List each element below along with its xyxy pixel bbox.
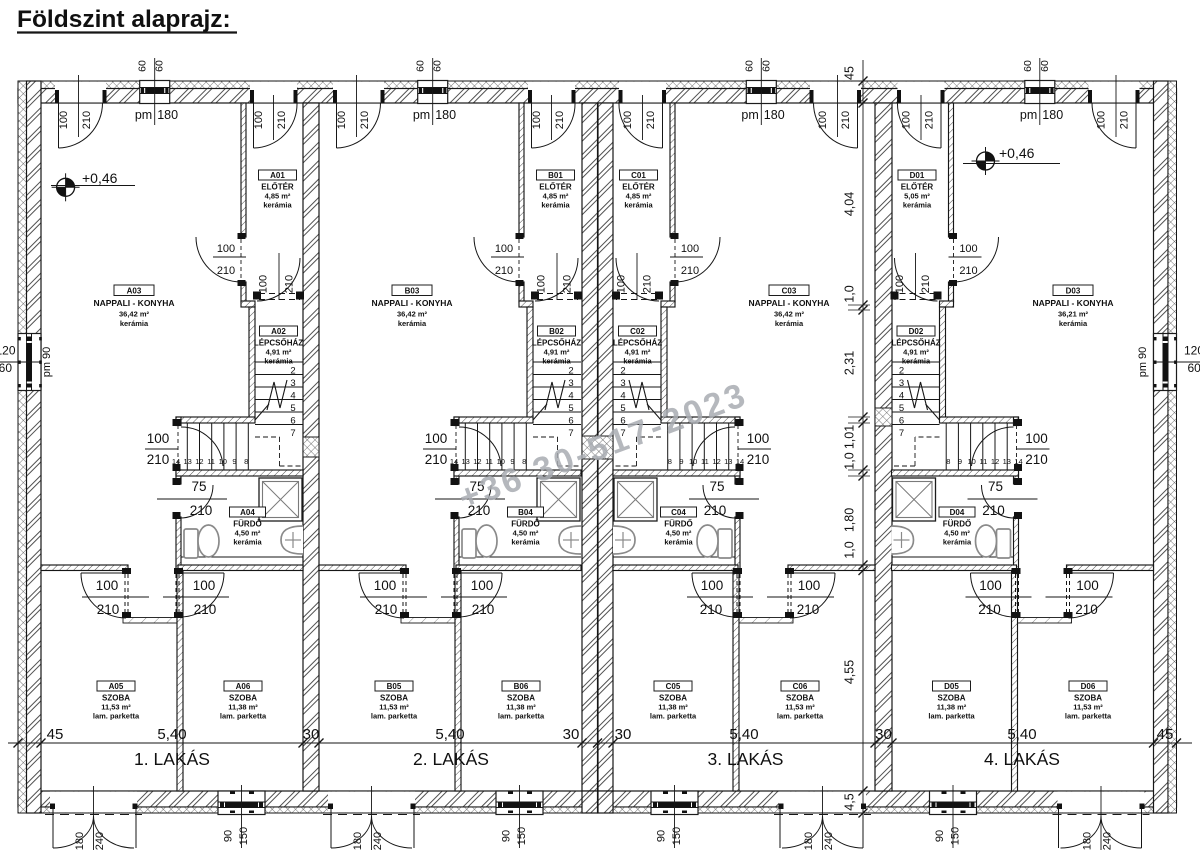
svg-text:30: 30 xyxy=(615,726,632,743)
svg-text:11,53 m²: 11,53 m² xyxy=(101,703,131,712)
svg-text:100: 100 xyxy=(336,111,348,129)
svg-text:180: 180 xyxy=(1082,832,1094,850)
svg-text:60: 60 xyxy=(137,60,149,72)
svg-text:5,40: 5,40 xyxy=(157,726,186,743)
unit B top-wall nappali door xyxy=(333,82,384,103)
svg-text:1,0: 1,0 xyxy=(843,285,857,302)
svg-text:A04: A04 xyxy=(240,508,255,517)
svg-text:C02: C02 xyxy=(630,327,645,336)
unit D stairs upper flight xyxy=(892,361,940,363)
svg-text:100: 100 xyxy=(193,578,216,593)
svg-text:60: 60 xyxy=(1022,60,1034,72)
svg-text:11: 11 xyxy=(701,457,709,466)
svg-text:D01: D01 xyxy=(910,171,925,180)
svg-text:1,01: 1,01 xyxy=(843,425,857,449)
svg-text:36,21 m²: 36,21 m² xyxy=(1058,310,1089,319)
svg-text:2: 2 xyxy=(568,366,573,377)
svg-text:D04: D04 xyxy=(950,508,965,517)
svg-text:pm: pm xyxy=(741,108,758,122)
svg-text:12: 12 xyxy=(473,457,481,466)
svg-text:kerámia: kerámia xyxy=(263,201,292,210)
svg-text:A05: A05 xyxy=(109,682,124,691)
unit D szoba doors xyxy=(1064,568,1073,574)
unit C bathroom fixtures xyxy=(613,556,735,558)
svg-text:2: 2 xyxy=(899,366,904,377)
svg-text:210: 210 xyxy=(1075,602,1098,617)
svg-text:100: 100 xyxy=(58,111,70,129)
svg-text:A03: A03 xyxy=(127,287,142,296)
unit A bottom entrance door xyxy=(50,792,137,813)
svg-text:ELŐTÉR: ELŐTÉR xyxy=(622,183,655,192)
unit A interior walls xyxy=(241,103,246,237)
unit C top-wall nappali door xyxy=(810,82,861,103)
svg-text:7: 7 xyxy=(290,428,295,439)
svg-text:12: 12 xyxy=(712,457,720,466)
unit A eloter-nappali door xyxy=(238,233,246,239)
svg-text:1,80: 1,80 xyxy=(843,508,857,532)
svg-text:LÉPCSŐHÁZ: LÉPCSŐHÁZ xyxy=(891,339,940,348)
svg-text:FÜRDŐ: FÜRDŐ xyxy=(233,520,261,529)
unit B top-wall entry door xyxy=(528,82,575,103)
svg-text:kerámia: kerámia xyxy=(233,538,262,547)
svg-text:4: 4 xyxy=(290,390,295,401)
svg-text:1. LAKÁS: 1. LAKÁS xyxy=(134,749,210,769)
svg-text:D02: D02 xyxy=(909,327,924,336)
svg-text:210: 210 xyxy=(1025,452,1048,467)
svg-text:100: 100 xyxy=(747,431,770,446)
svg-text:240: 240 xyxy=(372,832,384,850)
unit D stairs lower flight xyxy=(1006,423,1008,470)
svg-text:LÉPCSŐHÁZ: LÉPCSŐHÁZ xyxy=(254,339,303,348)
unit C szoba doors xyxy=(785,568,794,574)
svg-text:lam. parketta: lam. parketta xyxy=(371,712,418,721)
svg-text:36,42 m²: 36,42 m² xyxy=(774,310,805,319)
unit B bottom window 90/150 xyxy=(496,792,543,813)
room label B06 xyxy=(502,681,540,691)
unit C top-wall entry door xyxy=(619,82,666,103)
svg-text:A06: A06 xyxy=(236,682,251,691)
dimension chain vertical x863 xyxy=(862,60,864,845)
svg-text:75: 75 xyxy=(709,479,724,494)
svg-text:1,0: 1,0 xyxy=(843,541,857,558)
svg-text:6: 6 xyxy=(899,415,904,426)
svg-text:210: 210 xyxy=(472,602,495,617)
svg-text:9: 9 xyxy=(958,457,962,466)
svg-text:2: 2 xyxy=(290,366,295,377)
svg-text:4,5: 4,5 xyxy=(843,793,857,810)
svg-text:100: 100 xyxy=(147,431,170,446)
svg-text:kerámia: kerámia xyxy=(624,201,653,210)
svg-text:120: 120 xyxy=(1184,344,1200,358)
svg-text:210: 210 xyxy=(797,602,820,617)
svg-text:150: 150 xyxy=(516,827,528,845)
svg-text:210: 210 xyxy=(81,111,93,129)
unit D bathroom fixtures xyxy=(892,556,1014,558)
room label B01 xyxy=(537,170,575,180)
svg-text:B05: B05 xyxy=(387,682,402,691)
room label C02 xyxy=(619,326,657,336)
svg-text:90: 90 xyxy=(934,830,946,842)
room label C04 xyxy=(661,507,697,517)
room label A03 xyxy=(114,285,154,296)
svg-text:ELŐTÉR: ELŐTÉR xyxy=(261,183,294,192)
unit B bottom entrance door xyxy=(328,792,415,813)
svg-text:D03: D03 xyxy=(1066,287,1081,296)
svg-text:8: 8 xyxy=(244,457,248,466)
svg-text:45: 45 xyxy=(843,66,857,80)
svg-text:210: 210 xyxy=(562,275,574,293)
svg-text:100: 100 xyxy=(253,111,265,129)
svg-text:4,04: 4,04 xyxy=(843,192,857,216)
svg-text:4: 4 xyxy=(620,390,625,401)
svg-text:180: 180 xyxy=(352,832,364,850)
svg-text:3: 3 xyxy=(568,378,573,389)
svg-text:210: 210 xyxy=(645,111,657,129)
svg-text:60: 60 xyxy=(1039,60,1051,72)
window pm90 left wall unit A xyxy=(18,334,41,391)
svg-text:210: 210 xyxy=(924,111,936,129)
svg-text:5: 5 xyxy=(899,403,904,414)
svg-text:210: 210 xyxy=(840,111,852,129)
svg-text:13: 13 xyxy=(1003,457,1011,466)
svg-text:lam. parketta: lam. parketta xyxy=(93,712,140,721)
svg-text:4,91 m²: 4,91 m² xyxy=(544,348,570,357)
svg-text:3: 3 xyxy=(620,378,625,389)
svg-text:100: 100 xyxy=(531,111,543,129)
svg-text:pm 90: pm 90 xyxy=(41,347,53,378)
svg-text:NAPPALI - KONYHA: NAPPALI - KONYHA xyxy=(371,298,452,308)
svg-text:180: 180 xyxy=(803,832,815,850)
svg-text:FÜRDŐ: FÜRDŐ xyxy=(511,520,539,529)
svg-text:60: 60 xyxy=(154,60,166,72)
svg-text:+0,46: +0,46 xyxy=(82,170,118,186)
svg-text:100: 100 xyxy=(901,111,913,129)
svg-text:100: 100 xyxy=(1025,431,1048,446)
svg-text:100: 100 xyxy=(798,578,821,593)
svg-text:SZOBA: SZOBA xyxy=(938,694,966,703)
svg-text:5,40: 5,40 xyxy=(435,726,464,743)
svg-text:SZOBA: SZOBA xyxy=(786,694,814,703)
svg-text:180: 180 xyxy=(157,108,178,122)
room label C01 xyxy=(620,170,658,180)
unit A stairs upper flight xyxy=(255,361,303,363)
svg-text:100: 100 xyxy=(425,431,448,446)
svg-text:lam. parketta: lam. parketta xyxy=(1065,712,1112,721)
svg-text:210: 210 xyxy=(495,265,513,277)
svg-text:D05: D05 xyxy=(944,682,959,691)
svg-text:90: 90 xyxy=(656,830,668,842)
unit B bath door 75/210 xyxy=(451,478,459,485)
svg-text:lam. parketta: lam. parketta xyxy=(777,712,824,721)
unit A bottom window 90/150 xyxy=(218,792,265,813)
room label D06 xyxy=(1069,681,1107,691)
svg-text:pm: pm xyxy=(135,108,152,122)
svg-text:SZOBA: SZOBA xyxy=(229,694,257,703)
svg-text:210: 210 xyxy=(982,503,1005,518)
svg-text:210: 210 xyxy=(747,452,770,467)
svg-text:180: 180 xyxy=(435,108,456,122)
room label A01 xyxy=(259,170,297,180)
room label C03 xyxy=(769,285,809,296)
unit C stairs upper flight xyxy=(613,361,661,363)
room label D03 xyxy=(1053,285,1093,296)
svg-text:100: 100 xyxy=(622,111,634,129)
room label B04 xyxy=(508,507,544,517)
svg-text:210: 210 xyxy=(147,452,170,467)
svg-text:3. LAKÁS: 3. LAKÁS xyxy=(708,749,784,769)
svg-text:30: 30 xyxy=(303,726,320,743)
svg-text:12: 12 xyxy=(195,457,203,466)
svg-text:210: 210 xyxy=(700,602,723,617)
svg-text:2: 2 xyxy=(620,366,625,377)
svg-text:3: 3 xyxy=(899,378,904,389)
svg-text:5: 5 xyxy=(568,403,573,414)
svg-text:180: 180 xyxy=(764,108,785,122)
unit A top-wall entry door xyxy=(250,82,297,103)
svg-text:B04: B04 xyxy=(518,508,533,517)
party wall C-D xyxy=(875,103,892,791)
svg-text:4. LAKÁS: 4. LAKÁS xyxy=(984,749,1060,769)
svg-text:210: 210 xyxy=(190,503,213,518)
svg-text:36,42 m²: 36,42 m² xyxy=(397,310,428,319)
svg-text:60: 60 xyxy=(760,60,772,72)
svg-text:11,53 m²: 11,53 m² xyxy=(1073,703,1103,712)
svg-text:kerámia: kerámia xyxy=(541,201,570,210)
svg-text:SZOBA: SZOBA xyxy=(380,694,408,703)
svg-text:12: 12 xyxy=(991,457,999,466)
unit D interior walls xyxy=(949,103,954,237)
svg-text:11,38 m²: 11,38 m² xyxy=(228,703,258,712)
svg-text:210: 210 xyxy=(97,602,120,617)
svg-text:8: 8 xyxy=(946,457,950,466)
svg-text:100: 100 xyxy=(616,275,628,293)
unit A szoba doors xyxy=(122,568,131,574)
svg-text:C03: C03 xyxy=(782,287,797,296)
svg-text:60: 60 xyxy=(743,60,755,72)
svg-text:75: 75 xyxy=(191,479,206,494)
svg-text:4,91 m²: 4,91 m² xyxy=(625,348,651,357)
unit C eloter-nappali door xyxy=(671,233,679,239)
unit A stairs lower flight xyxy=(186,423,188,470)
svg-text:kerámia: kerámia xyxy=(775,319,804,328)
svg-text:B02: B02 xyxy=(549,327,564,336)
unit B stairs lower flight xyxy=(464,423,466,470)
exterior wall bottom xyxy=(18,791,1177,807)
svg-text:5,40: 5,40 xyxy=(1007,726,1036,743)
svg-text:240: 240 xyxy=(823,832,835,850)
svg-text:9: 9 xyxy=(232,457,236,466)
svg-text:A02: A02 xyxy=(271,327,286,336)
svg-text:100: 100 xyxy=(217,243,235,255)
svg-text:B06: B06 xyxy=(514,682,529,691)
svg-text:240: 240 xyxy=(1102,832,1114,850)
svg-text:kerámia: kerámia xyxy=(623,357,652,366)
svg-text:11,53 m²: 11,53 m² xyxy=(379,703,409,712)
svg-text:kerámia: kerámia xyxy=(120,319,149,328)
room label B03 xyxy=(392,285,432,296)
svg-text:100: 100 xyxy=(258,275,270,293)
unit C interior walls xyxy=(670,103,675,237)
unit B szoba doors xyxy=(400,568,409,574)
svg-text:pm: pm xyxy=(1020,108,1037,122)
svg-text:210: 210 xyxy=(978,602,1001,617)
svg-text:5,40: 5,40 xyxy=(729,726,758,743)
svg-text:ELŐTÉR: ELŐTÉR xyxy=(901,183,934,192)
svg-text:240: 240 xyxy=(94,832,106,850)
svg-text:60: 60 xyxy=(432,60,444,72)
svg-text:100: 100 xyxy=(374,578,397,593)
svg-text:4,85 m²: 4,85 m² xyxy=(543,192,569,201)
svg-text:100: 100 xyxy=(471,578,494,593)
svg-text:100: 100 xyxy=(817,111,829,129)
svg-text:11: 11 xyxy=(485,457,493,466)
room label B05 xyxy=(375,681,413,691)
party wall A-B xyxy=(303,103,319,791)
svg-text:210: 210 xyxy=(1119,111,1131,129)
svg-text:SZOBA: SZOBA xyxy=(1074,694,1102,703)
window pm90 right wall unit D xyxy=(1154,334,1177,391)
unit C stairs lower flight xyxy=(728,423,730,470)
svg-text:FÜRDŐ: FÜRDŐ xyxy=(943,520,971,529)
svg-text:60: 60 xyxy=(0,361,12,375)
svg-text:13: 13 xyxy=(184,457,192,466)
svg-text:150: 150 xyxy=(671,827,683,845)
exterior wall right xyxy=(1154,81,1169,813)
svg-text:13: 13 xyxy=(724,457,732,466)
svg-text:pm 90: pm 90 xyxy=(1137,347,1149,378)
svg-text:30: 30 xyxy=(563,726,580,743)
svg-text:kerámia: kerámia xyxy=(264,357,293,366)
unit D top-wall nappali door xyxy=(1089,82,1140,103)
svg-text:1,0: 1,0 xyxy=(843,452,857,469)
svg-text:45: 45 xyxy=(1157,726,1174,743)
unit D bottom entrance door xyxy=(1058,792,1145,813)
svg-text:100: 100 xyxy=(979,578,1002,593)
svg-text:5,05 m²: 5,05 m² xyxy=(904,192,930,201)
svg-text:100: 100 xyxy=(495,243,513,255)
svg-text:100: 100 xyxy=(1096,111,1108,129)
svg-text:210: 210 xyxy=(359,111,371,129)
svg-text:210: 210 xyxy=(194,602,217,617)
svg-text:kerámia: kerámia xyxy=(902,357,931,366)
unit A bathroom fixtures xyxy=(181,556,303,558)
svg-text:4,55: 4,55 xyxy=(843,660,857,684)
svg-text:100: 100 xyxy=(894,275,906,293)
svg-text:210: 210 xyxy=(959,265,977,277)
svg-text:9: 9 xyxy=(679,457,683,466)
svg-text:4,50 m²: 4,50 m² xyxy=(666,529,692,538)
unit D bath door 75/210 xyxy=(1014,478,1022,485)
svg-text:5: 5 xyxy=(620,403,625,414)
svg-text:5: 5 xyxy=(290,403,295,414)
exterior wall left xyxy=(18,81,27,813)
svg-text:lam. parketta: lam. parketta xyxy=(928,712,975,721)
svg-text:D06: D06 xyxy=(1081,682,1096,691)
unit A bath door 75/210 xyxy=(173,478,181,485)
svg-text:210: 210 xyxy=(217,265,235,277)
svg-text:7: 7 xyxy=(899,428,904,439)
svg-text:kerámia: kerámia xyxy=(542,357,571,366)
unit B stairs upper flight xyxy=(533,361,581,363)
svg-text:lam. parketta: lam. parketta xyxy=(498,712,545,721)
svg-text:4,50 m²: 4,50 m² xyxy=(235,529,261,538)
svg-text:NAPPALI - KONYHA: NAPPALI - KONYHA xyxy=(93,298,174,308)
svg-text:150: 150 xyxy=(950,827,962,845)
svg-text:11,38 m²: 11,38 m² xyxy=(937,703,967,712)
svg-text:lam. parketta: lam. parketta xyxy=(220,712,267,721)
unit D top-wall entry door xyxy=(898,82,945,103)
svg-text:210: 210 xyxy=(284,275,296,293)
unit D bottom window 90/150 xyxy=(930,792,977,813)
svg-text:100: 100 xyxy=(96,578,119,593)
room label C06 xyxy=(781,681,819,691)
svg-text:210: 210 xyxy=(681,265,699,277)
room label C05 xyxy=(654,681,692,691)
svg-text:ELŐTÉR: ELŐTÉR xyxy=(539,183,572,192)
svg-text:100: 100 xyxy=(701,578,724,593)
svg-text:11,38 m²: 11,38 m² xyxy=(506,703,536,712)
svg-text:210: 210 xyxy=(425,452,448,467)
unit C eloter-stair door xyxy=(655,292,663,300)
svg-text:210: 210 xyxy=(554,111,566,129)
svg-text:FÜRDŐ: FÜRDŐ xyxy=(664,520,692,529)
svg-text:180: 180 xyxy=(74,832,86,850)
unit C bottom entrance door xyxy=(779,792,866,813)
svg-text:60: 60 xyxy=(415,60,427,72)
svg-text:lam. parketta: lam. parketta xyxy=(650,712,697,721)
room label A04 xyxy=(230,507,266,517)
level marker +0,46 xyxy=(57,178,75,196)
room label D01 xyxy=(898,170,936,180)
svg-text:60: 60 xyxy=(1188,361,1200,375)
svg-text:kerámia: kerámia xyxy=(1059,319,1088,328)
unit B top-wall window pm180 xyxy=(418,82,448,103)
svg-text:45: 45 xyxy=(47,726,64,743)
party wall B-C bottom continuation xyxy=(582,791,598,813)
room label A02 xyxy=(260,326,298,336)
svg-text:11: 11 xyxy=(207,457,215,466)
svg-text:120: 120 xyxy=(0,344,16,358)
level marker +0,46 xyxy=(977,152,995,170)
room label A05 xyxy=(97,681,135,691)
svg-text:NAPPALI - KONYHA: NAPPALI - KONYHA xyxy=(748,298,829,308)
svg-text:210: 210 xyxy=(920,275,932,293)
svg-text:210: 210 xyxy=(375,602,398,617)
svg-text:kerámia: kerámia xyxy=(903,201,932,210)
svg-text:11,53 m²: 11,53 m² xyxy=(785,703,815,712)
svg-text:6: 6 xyxy=(568,415,573,426)
unit D top-wall window pm180 xyxy=(1025,82,1055,103)
unit A top-wall window pm180 xyxy=(140,82,170,103)
unit D eloter-nappali door xyxy=(949,233,957,239)
unit B bathroom fixtures xyxy=(459,556,581,558)
svg-text:30: 30 xyxy=(875,726,892,743)
svg-text:kerámia: kerámia xyxy=(664,538,693,547)
unit D eloter-stair door xyxy=(934,292,942,300)
svg-text:LÉPCSŐHÁZ: LÉPCSŐHÁZ xyxy=(532,339,581,348)
unit C top-wall window pm180 xyxy=(746,82,776,103)
svg-text:36,42 m²: 36,42 m² xyxy=(119,310,150,319)
svg-text:4: 4 xyxy=(568,390,573,401)
room label D05 xyxy=(933,681,971,691)
exterior wall top xyxy=(18,81,1177,89)
unit B eloter-nappali door xyxy=(516,233,524,239)
svg-text:8: 8 xyxy=(668,457,672,466)
svg-text:13: 13 xyxy=(462,457,470,466)
svg-text:C01: C01 xyxy=(631,171,646,180)
svg-text:SZOBA: SZOBA xyxy=(659,694,687,703)
unit C bottom window 90/150 xyxy=(651,792,698,813)
